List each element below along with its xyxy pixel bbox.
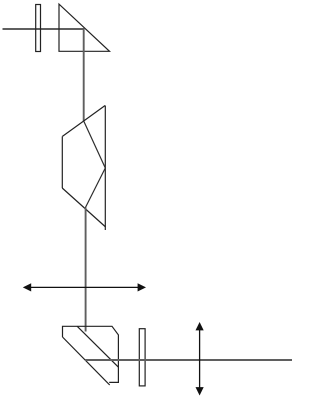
fold prism P3 hypotenuse face [63, 337, 110, 385]
fold prism P3 outline (bottom, beveled corner) [63, 326, 119, 382]
prism P2 left face [61, 136, 63, 188]
beam wire (vertical, P1 to P2) [83, 28, 85, 121]
waveplate W2 (thin vertical plate, bottom) [139, 329, 145, 386]
prism P2 top face [62, 106, 105, 137]
beam wire (vertical, P2 to P3) [85, 208, 87, 332]
prism P2 bottom face [62, 188, 105, 227]
output beam wire (horizontal, bottom) [85, 359, 292, 361]
input beam wire (horizontal, top-left) [3, 28, 85, 30]
waveplate W1 (thin vertical plate, top) [36, 5, 41, 52]
right-angle prism mirror P1 (top triangle) [59, 4, 110, 51]
prism P2 right face [104, 106, 106, 231]
scan direction arrow (horizontal double-headed) [23, 283, 146, 291]
internal beam wire (refraction path inside P2) [84, 121, 106, 208]
focus direction arrow (vertical double-headed) [196, 322, 204, 396]
fold prism P3 internal diagonal face [77, 326, 118, 367]
